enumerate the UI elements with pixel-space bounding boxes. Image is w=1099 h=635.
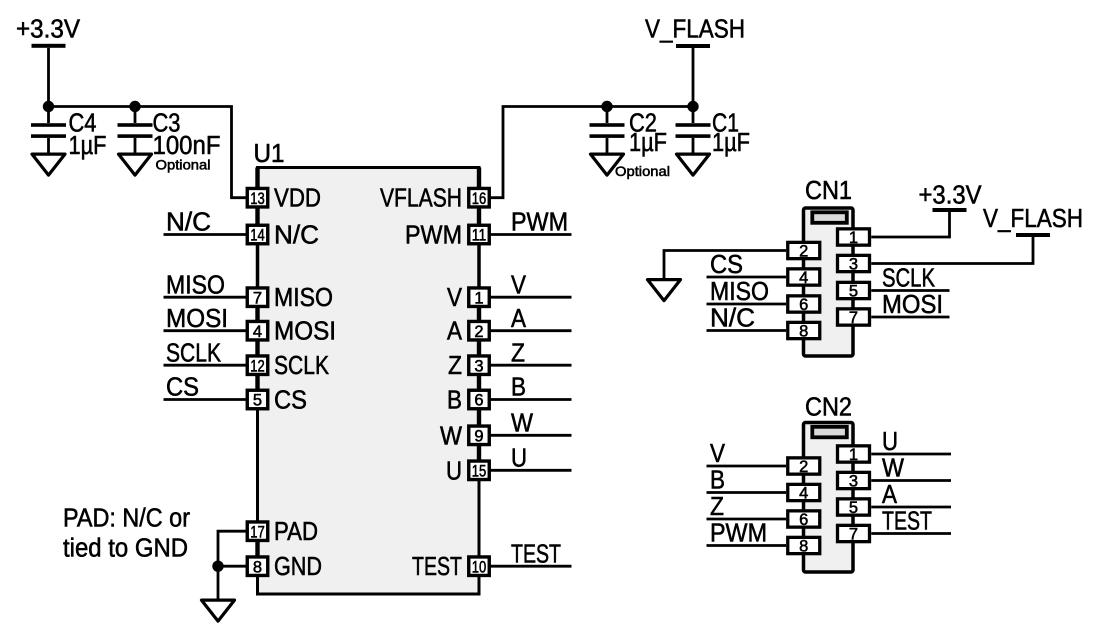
CN1 pin 2 bbox=[788, 242, 820, 260]
svg-text:Optional: Optional bbox=[615, 163, 670, 179]
svg-text:1: 1 bbox=[849, 229, 858, 247]
wire pin stubs right edge bbox=[477, 168, 481, 461]
svg-text:17: 17 bbox=[250, 523, 265, 541]
svg-text:11: 11 bbox=[472, 227, 487, 245]
svg-text:6: 6 bbox=[474, 392, 483, 410]
CN1 pin 6 bbox=[788, 296, 820, 314]
svg-text:SCLK: SCLK bbox=[882, 265, 935, 293]
capacitor C4 bbox=[31, 107, 107, 161]
wire net W CN2 bbox=[871, 455, 951, 483]
svg-text:SCLK: SCLK bbox=[274, 352, 329, 380]
svg-text:CS: CS bbox=[710, 251, 743, 279]
svg-text:14: 14 bbox=[250, 227, 265, 245]
CN1 notch bbox=[812, 212, 847, 223]
wire to ground bbox=[217, 566, 220, 598]
wire net CS to U1 bbox=[164, 374, 247, 402]
svg-text:6: 6 bbox=[799, 511, 808, 529]
svg-text:PAD: N/C or: PAD: N/C or bbox=[63, 505, 190, 533]
svg-text:V: V bbox=[710, 440, 725, 468]
wire CN1 pin1 to +3.3V bbox=[871, 212, 949, 237]
svg-text:5: 5 bbox=[849, 499, 858, 517]
wire CN1 pin2 to ground bbox=[664, 251, 786, 279]
svg-text:1µF: 1µF bbox=[69, 132, 107, 160]
CN1 pin 7 bbox=[838, 309, 870, 327]
wire net V CN2 bbox=[707, 440, 787, 468]
wire net A CN2 bbox=[871, 481, 951, 509]
svg-text:8: 8 bbox=[253, 558, 262, 576]
svg-text:N/C: N/C bbox=[166, 209, 211, 237]
wire net B from U1 bbox=[490, 374, 572, 402]
wire net N/C CN1 bbox=[707, 305, 787, 333]
svg-text:B: B bbox=[710, 467, 725, 495]
svg-text:Z: Z bbox=[511, 339, 525, 367]
wire PAD/GND to ground bbox=[218, 531, 247, 566]
capacitor C3 bbox=[118, 107, 221, 173]
svg-text:13: 13 bbox=[250, 190, 265, 208]
CN2 notch bbox=[812, 427, 847, 438]
wire net U CN2 bbox=[871, 428, 951, 456]
connector CN2 body bbox=[804, 423, 854, 573]
svg-text:VDD: VDD bbox=[274, 185, 321, 213]
svg-text:V_FLASH: V_FLASH bbox=[983, 205, 1083, 233]
svg-text:W: W bbox=[511, 410, 533, 438]
wire net W from U1 bbox=[490, 410, 572, 438]
op-amp U1 body bbox=[258, 168, 480, 595]
CN2 pin 3 bbox=[838, 472, 870, 490]
svg-text:A: A bbox=[882, 481, 897, 509]
svg-text:TEST: TEST bbox=[511, 540, 561, 568]
wire net PWM from U1 bbox=[490, 209, 572, 237]
pin 17 PAD bbox=[247, 518, 318, 546]
svg-text:tied to GND: tied to GND bbox=[63, 535, 188, 563]
ground CN1 bbox=[648, 280, 681, 301]
CN2 pin 1 bbox=[838, 446, 870, 464]
svg-text:Optional: Optional bbox=[156, 157, 211, 173]
wire net B CN2 bbox=[707, 467, 787, 495]
pin 15 U bbox=[446, 457, 489, 485]
pin 4 MOSI bbox=[247, 318, 336, 346]
CN2 pin 7 bbox=[838, 525, 870, 543]
pin 14 N/C bbox=[247, 222, 319, 250]
pin 2 A bbox=[447, 318, 489, 346]
ground C3 bbox=[119, 154, 152, 175]
pin 11 PWM bbox=[405, 222, 489, 250]
svg-text:PWM: PWM bbox=[511, 209, 568, 237]
svg-text:1µF: 1µF bbox=[712, 129, 750, 157]
svg-text:7: 7 bbox=[253, 289, 262, 307]
svg-text:N/C: N/C bbox=[274, 222, 319, 250]
svg-text:U: U bbox=[446, 457, 462, 485]
wire net Z CN2 bbox=[707, 493, 787, 521]
junction C3 bbox=[129, 101, 140, 112]
ground C1 bbox=[677, 154, 710, 175]
wire pin stubs left edge bbox=[255, 168, 259, 557]
svg-text:B: B bbox=[511, 374, 526, 402]
svg-text:2: 2 bbox=[799, 458, 808, 476]
capacitor C2 bbox=[590, 107, 671, 180]
CN2 pin 2 bbox=[788, 458, 820, 476]
svg-text:+3.3V: +3.3V bbox=[919, 182, 982, 210]
CN2 pin 8 bbox=[788, 537, 820, 555]
wire net Z from U1 bbox=[490, 339, 572, 367]
svg-text:3: 3 bbox=[849, 256, 858, 274]
pin 7 MISO bbox=[247, 284, 333, 312]
svg-text:A: A bbox=[447, 318, 462, 346]
svg-text:8: 8 bbox=[799, 538, 808, 556]
svg-text:MOSI: MOSI bbox=[166, 305, 228, 333]
svg-text:U1: U1 bbox=[254, 140, 285, 168]
svg-text:CN1: CN1 bbox=[805, 177, 852, 205]
pin 3 Z bbox=[448, 352, 489, 380]
ground C2 bbox=[591, 154, 624, 175]
svg-text:+3.3V: +3.3V bbox=[16, 16, 80, 44]
svg-text:W: W bbox=[882, 455, 904, 483]
power +3.3V CN1 bbox=[919, 182, 982, 213]
svg-text:U: U bbox=[511, 445, 527, 473]
pin 13 VDD bbox=[247, 185, 321, 213]
CN1 pin 5 bbox=[838, 282, 870, 300]
wire net N/C to U1 bbox=[164, 209, 247, 237]
svg-text:VFLASH: VFLASH bbox=[380, 185, 462, 213]
pin 1 V bbox=[447, 284, 489, 312]
wire net MISO CN1 bbox=[707, 278, 787, 306]
svg-text:W: W bbox=[440, 422, 462, 450]
svg-text:CN2: CN2 bbox=[805, 394, 852, 422]
svg-text:3: 3 bbox=[474, 357, 483, 375]
svg-text:9: 9 bbox=[474, 428, 483, 446]
svg-text:V: V bbox=[447, 284, 462, 312]
svg-text:4: 4 bbox=[799, 269, 808, 287]
CN2 pin 5 bbox=[838, 499, 870, 517]
svg-text:MISO: MISO bbox=[274, 284, 333, 312]
wire net A from U1 bbox=[490, 305, 572, 333]
wire left supply bus bbox=[47, 107, 246, 198]
svg-text:MISO: MISO bbox=[710, 278, 769, 306]
power V_FLASH CN1 bbox=[983, 205, 1083, 237]
svg-text:Z: Z bbox=[448, 352, 462, 380]
svg-text:B: B bbox=[447, 387, 462, 415]
connector CN1 body bbox=[804, 208, 854, 356]
svg-text:7: 7 bbox=[849, 526, 858, 544]
wire right supply bus bbox=[490, 107, 693, 198]
junction PAD/GND bbox=[212, 561, 223, 572]
svg-text:6: 6 bbox=[799, 296, 808, 314]
svg-text:SCLK: SCLK bbox=[166, 339, 221, 367]
wire net U from U1 bbox=[490, 445, 572, 473]
svg-text:1µF: 1µF bbox=[629, 129, 667, 157]
power +3.3V top-left bbox=[16, 16, 80, 107]
pin 6 B bbox=[447, 387, 489, 415]
wire net SCLK CN1 bbox=[871, 265, 949, 293]
svg-text:N/C: N/C bbox=[710, 305, 755, 333]
note PAD text bbox=[63, 505, 190, 563]
svg-text:5: 5 bbox=[849, 283, 858, 301]
wire CN1 pin3 to V_FLASH bbox=[871, 237, 1033, 264]
svg-text:V_FLASH: V_FLASH bbox=[645, 16, 745, 44]
wire net MISO to U1 bbox=[164, 271, 247, 299]
svg-text:MOSI: MOSI bbox=[882, 291, 943, 319]
pin 12 SCLK bbox=[247, 352, 329, 380]
CN2 pin 4 bbox=[788, 484, 820, 502]
CN1 pin 8 bbox=[788, 322, 820, 340]
wire net TEST from U1 bbox=[490, 540, 572, 568]
CN1 pin 4 bbox=[788, 269, 820, 287]
svg-text:GND: GND bbox=[274, 553, 322, 581]
junction C2 bbox=[601, 101, 612, 112]
power V_FLASH top bbox=[645, 16, 745, 107]
svg-text:PAD: PAD bbox=[274, 518, 318, 546]
ground C4 bbox=[32, 154, 65, 175]
ground U1 bbox=[202, 600, 235, 621]
svg-text:TEST: TEST bbox=[882, 508, 932, 536]
svg-text:PWM: PWM bbox=[710, 520, 767, 548]
svg-text:CS: CS bbox=[166, 374, 199, 402]
CN2 pin 6 bbox=[788, 511, 820, 529]
wire net PWM CN2 bbox=[707, 520, 787, 548]
junction C4 bbox=[43, 101, 54, 112]
svg-text:1: 1 bbox=[849, 446, 858, 464]
svg-text:4: 4 bbox=[253, 323, 262, 341]
svg-text:PWM: PWM bbox=[405, 222, 462, 250]
svg-text:16: 16 bbox=[472, 190, 487, 208]
svg-text:2: 2 bbox=[799, 243, 808, 261]
wire net MOSI CN1 bbox=[871, 291, 949, 319]
svg-text:5: 5 bbox=[253, 392, 262, 410]
svg-text:CS: CS bbox=[274, 387, 307, 415]
pin 10 TEST bbox=[412, 553, 489, 581]
junction C1 bbox=[687, 101, 698, 112]
CN1 pin 1 bbox=[838, 229, 870, 247]
svg-text:1: 1 bbox=[474, 289, 483, 307]
svg-text:MOSI: MOSI bbox=[274, 318, 336, 346]
svg-text:15: 15 bbox=[472, 463, 487, 481]
svg-text:2: 2 bbox=[474, 323, 483, 341]
pin 5 CS bbox=[247, 387, 307, 415]
svg-text:MISO: MISO bbox=[166, 271, 225, 299]
capacitor C1 bbox=[676, 107, 751, 158]
svg-text:A: A bbox=[511, 305, 526, 333]
wire net SCLK to U1 bbox=[164, 339, 247, 367]
wire net V from U1 bbox=[490, 271, 572, 299]
pin 8 GND bbox=[247, 553, 322, 581]
svg-text:U: U bbox=[882, 428, 898, 456]
wire net MOSI to U1 bbox=[164, 305, 247, 333]
svg-text:4: 4 bbox=[799, 485, 808, 503]
wire net CS CN1 bbox=[707, 251, 787, 279]
svg-text:12: 12 bbox=[250, 357, 265, 375]
svg-text:Z: Z bbox=[710, 493, 724, 521]
CN1 pin 3 bbox=[838, 255, 870, 273]
svg-text:3: 3 bbox=[849, 473, 858, 491]
pin 9 W bbox=[440, 422, 489, 450]
svg-text:8: 8 bbox=[799, 323, 808, 341]
svg-text:7: 7 bbox=[849, 309, 858, 327]
svg-text:10: 10 bbox=[472, 558, 487, 576]
svg-text:V: V bbox=[511, 271, 526, 299]
wire net TEST CN2 bbox=[871, 508, 951, 536]
svg-text:TEST: TEST bbox=[412, 553, 462, 581]
pin 16 VFLASH bbox=[380, 185, 489, 213]
